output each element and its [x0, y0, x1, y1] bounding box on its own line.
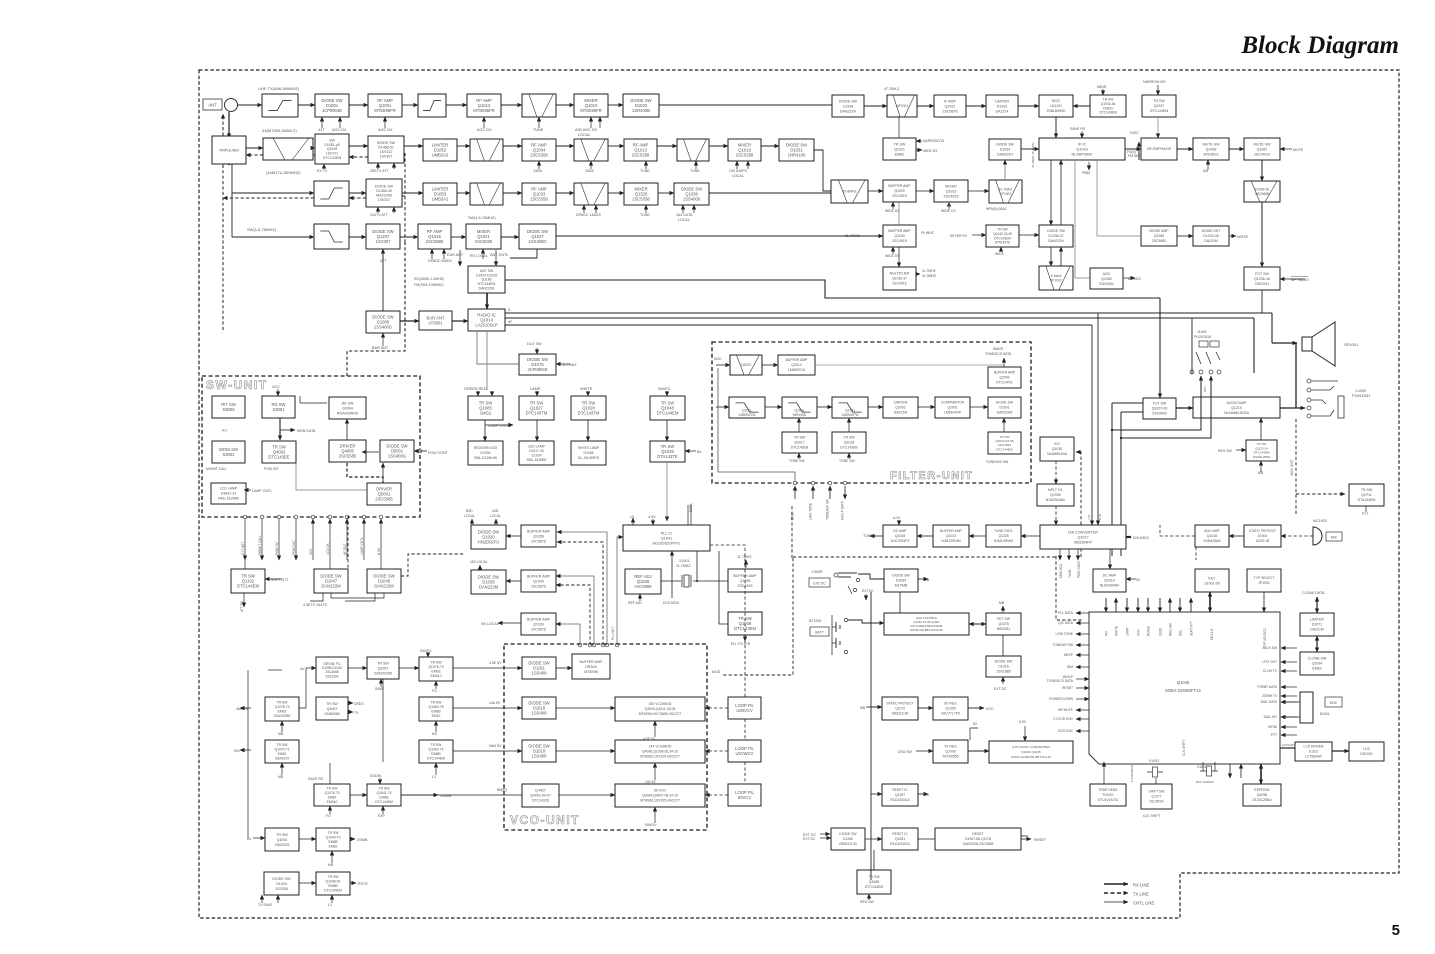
wire av to diplexer — [306, 667, 316, 669]
svg-text:LCD LAMP: LCD LAMP — [220, 487, 238, 491]
overline MP RADIO — [1291, 276, 1308, 278]
wire fo arrow b — [329, 806, 331, 814]
fet switch audio Q1007-09 — [1143, 398, 1176, 419]
svg-text:DOD3K: DOD3K — [370, 774, 382, 778]
svg-text:DTC144EM: DTC144EM — [996, 447, 1013, 451]
svg-text:1NR4100: 1NR4100 — [788, 153, 806, 158]
svg-text:MUTE SW: MUTE SW — [1203, 142, 1221, 146]
wire chain vertical left — [247, 670, 249, 838]
svg-text:153 LOCAL: 153 LOCAL — [470, 560, 488, 564]
rit switch S3005 — [212, 396, 245, 418]
svg-text:4.5E SV: 4.5E SV — [489, 661, 502, 665]
wire pwr branch reset — [871, 793, 882, 795]
rf amp Q1004 — [522, 139, 556, 161]
wire tx return row2 c — [349, 156, 368, 158]
svg-text:SC(A50K-1.2MHZ): SC(A50K-1.2MHZ) — [414, 277, 444, 281]
svg-text:DE-EMPHASIS: DE-EMPHASIS — [1147, 147, 1172, 151]
FILTER-UNIT dashed enclosure — [712, 342, 1031, 483]
svg-text:MT8S96,1SV325,HSC277: MT8S96,1SV325,HSC277 — [640, 755, 680, 759]
wire d1266 to reset — [865, 838, 882, 840]
svg-text:MP RADIO: MP RADIO — [1291, 278, 1309, 282]
svg-text:TR SW: TR SW — [430, 661, 442, 665]
IF IC Q1043 — [1039, 138, 1125, 160]
svg-text:Q2017: Q2017 — [794, 441, 804, 445]
svg-text:DA221M: DA221M — [1310, 628, 1324, 632]
svg-text:TEMP SENS: TEMP SENS — [1099, 788, 1119, 792]
diode switch D1458-45 — [366, 179, 402, 207]
svg-text:TUNE: TUNE — [690, 169, 700, 173]
svg-text:Q1062-74: Q1062-74 — [428, 748, 443, 752]
wire vco riser to buffer3 solid — [556, 624, 580, 645]
svg-text:VCC: VCC — [272, 385, 280, 389]
bandpass filter BPF4 — [574, 139, 608, 161]
audio amp Q1219 — [1193, 397, 1280, 418]
svg-text:KEY: KEY — [1208, 576, 1216, 580]
wire trunk c down dac — [1091, 325, 1093, 525]
tr switch Q1102 — [231, 569, 265, 593]
wire local arrow mixer1 — [590, 117, 592, 128]
svg-text:BUFFER AMP: BUFFER AMP — [888, 184, 911, 188]
svg-text:EXP: EXP — [378, 814, 386, 818]
svg-text:D2003: D2003 — [741, 363, 751, 367]
wire row1 long run to IF — [659, 104, 832, 106]
wire 65v arrow — [1024, 726, 1026, 741]
wire 5vreg out — [968, 707, 984, 709]
PLL IC Q1041 — [623, 525, 710, 551]
wire ific disc line — [1055, 117, 1057, 138]
svg-text:SW(1.6-76MHZ): SW(1.6-76MHZ) — [468, 216, 496, 220]
tr switch Q1076-73 — [314, 784, 350, 806]
wire fet to d1316 — [1002, 635, 1004, 656]
wire att arrow 1 — [321, 117, 323, 128]
svg-text:Q1094: Q1094 — [1312, 662, 1323, 666]
wire d1046 down — [345, 593, 375, 601]
svg-text:NLM2904AV: NLM2904AV — [1100, 584, 1120, 588]
svg-text:ANT: ANT — [208, 103, 217, 108]
svg-text:DCS MOD: DCS MOD — [663, 601, 680, 605]
wire dpagc arrow r4 — [431, 249, 433, 259]
svg-text:Q1029: Q1029 — [894, 189, 905, 193]
svg-text:2SC5650: 2SC5650 — [1152, 239, 1167, 243]
svg-text:(44M17U-300MHZ): (44M17U-300MHZ) — [266, 170, 301, 175]
wire loop fil chain a — [744, 719, 746, 740]
svg-text:1SV312: 1SV312 — [380, 150, 393, 154]
wire disc to ific — [1055, 117, 1057, 138]
svg-text:MB: MB — [278, 732, 284, 736]
svg-text:1SS400G: 1SS400G — [528, 239, 546, 244]
mixer Q1010 — [574, 94, 608, 117]
svg-text:2SC5005: 2SC5005 — [475, 239, 493, 244]
white lamp D1056 — [571, 441, 606, 465]
svg-text:TR SW: TR SW — [431, 743, 443, 747]
svg-text:AV: AV — [300, 667, 305, 671]
mute switch Q1968 — [1193, 138, 1229, 160]
svg-text:DTU1VVA75J: DTU1VVA75J — [1098, 798, 1119, 802]
svg-text:ATT: ATT — [380, 259, 387, 263]
svg-text:FM(76M-108MHZ): FM(76M-108MHZ) — [414, 283, 444, 287]
wire Q1033 to BPF7 — [556, 192, 574, 194]
wire reset to reset2 — [918, 838, 935, 840]
svg-text:2RU36VL: 2RU36VL — [1203, 152, 1219, 156]
svg-text:HVC89M: HVC89M — [635, 584, 652, 589]
wire ul arrow — [632, 518, 634, 525]
svg-text:1SSD: 1SSD — [1158, 627, 1162, 636]
wire filter to D1001 — [298, 104, 315, 106]
svg-text:2SC5658: 2SC5658 — [1255, 192, 1269, 196]
svg-text:EM62: EM62 — [329, 844, 338, 848]
wire d1034 to q1046 — [299, 882, 316, 884]
svg-text:PWR CONT: PWR CONT — [1077, 561, 1081, 578]
if filter 45-8MHZ — [831, 180, 868, 203]
junction circle POW on sw-unit border — [418, 449, 422, 453]
wire q1934 to disc — [1073, 105, 1090, 107]
svg-text:AGC DX: AGC DX — [332, 128, 347, 132]
wire qhdt to 50vco — [559, 794, 615, 796]
svg-text:DA2214: DA2214 — [996, 109, 1009, 113]
svg-text:EXT DC: EXT DC — [862, 589, 874, 593]
wire white arrow — [587, 391, 589, 396]
svg-text:CF1001: CF1001 — [1000, 192, 1012, 196]
svg-text:2SC5885: 2SC5885 — [426, 239, 444, 244]
buffer amp Q1056 — [521, 525, 556, 547]
svg-text:BUFFER AMP: BUFFER AMP — [580, 660, 604, 664]
wire dcs mod arrow — [671, 551, 673, 598]
tr switch Q1067 — [316, 697, 348, 720]
vco 144 — [615, 740, 705, 763]
wire audio feed a — [1112, 402, 1143, 404]
svg-text:NOISE: NOISE — [1146, 626, 1150, 636]
wire reg sw arrow audio — [1236, 449, 1246, 451]
tr switch Q1085 reg — [857, 870, 891, 894]
tr switch Q2017 — [782, 432, 817, 453]
svg-text:KEY1-8: KEY1-8 — [1210, 629, 1214, 640]
svg-text:JACK SW: JACK SW — [1262, 646, 1278, 650]
wire ext dc vco arrow — [820, 833, 830, 835]
svg-text:TR SW: TR SW — [868, 875, 880, 879]
svg-text:43(MT300-540M-Z): 43(MT300-540M-Z) — [262, 128, 297, 133]
svg-text:Q1091 Q1045: Q1091 Q1045 — [1021, 750, 1041, 754]
svg-text:Q1035: Q1035 — [1052, 447, 1063, 451]
svg-text:LM6902FW: LM6902FW — [841, 413, 859, 417]
wire driver up to resw — [346, 419, 348, 440]
tr switch Q1042-45 — [986, 225, 1019, 247]
svg-text:R3111N301A: R3111N301A — [890, 798, 911, 802]
svg-text:1SV307: 1SV307 — [376, 239, 392, 244]
wire trunk a down speaker — [1271, 313, 1273, 343]
svg-text:D1004: D1004 — [1258, 534, 1268, 538]
wire tone sw arrow b — [848, 453, 850, 459]
wire q1057 to q1075 — [399, 667, 419, 669]
svg-text:NJM2904AV: NJM2904AV — [1046, 498, 1066, 502]
svg-text:LPO OUT: LPO OUT — [1263, 660, 1277, 664]
wire save rs arrow — [1081, 131, 1083, 138]
svg-text:DTC143EE: DTC143EE — [268, 455, 289, 460]
svg-text:GREEN RED: GREEN RED — [464, 387, 487, 391]
svg-text:MDS551: MDS551 — [997, 627, 1011, 631]
SW-UNIT dashed enclosure — [202, 376, 420, 517]
svg-text:Bx: Bx — [697, 450, 701, 454]
svg-text:EM62: EM62 — [328, 795, 337, 799]
wire q1048 down — [666, 420, 668, 441]
filter FL3 highpass — [314, 181, 349, 206]
svg-text:D1024-D1028: D1024-D1028 — [476, 273, 497, 277]
svg-text:Q1036-37: Q1036-37 — [892, 277, 907, 281]
wire trunk d down dac — [1097, 313, 1099, 525]
wire BPF3 to Q1004 — [503, 145, 522, 147]
svg-text:D1017-20: D1017-20 — [529, 449, 544, 453]
wire crystal riser to pll — [696, 551, 698, 581]
svg-text:LAMP CNTL: LAMP CNTL — [252, 489, 272, 493]
wire q1028 down — [587, 420, 589, 441]
limiter D1052 — [423, 139, 457, 161]
svg-text:RX LINE: RX LINE — [1133, 883, 1149, 888]
tr switch Q1062-74 — [419, 740, 453, 763]
wire local arrow row3b — [693, 205, 695, 213]
diode switch D1458-51 — [368, 136, 404, 163]
svg-text:Q2018: Q2018 — [844, 441, 854, 445]
svg-text:BEEP: BEEP — [1064, 653, 1074, 657]
svg-text:DTA144EM: DTA144EM — [1358, 498, 1376, 502]
svg-text:D1102: D1102 — [1309, 750, 1319, 754]
svg-text:EX TX: EX TX — [317, 169, 328, 173]
wire vco riser to buffer2 solid — [556, 576, 594, 645]
wire noise arrow — [1229, 235, 1236, 237]
svg-text:Q1040-70: Q1040-70 — [325, 836, 340, 840]
svg-text:DPAGC 5WDX: DPAGC 5WDX — [428, 259, 452, 263]
wire dod3k arrow — [379, 778, 381, 784]
svg-text:R2L THSM07: R2L THSM07 — [1196, 780, 1214, 784]
svg-text:MONI: MONI — [1268, 725, 1277, 729]
wire Q1010 to D1032 — [608, 104, 623, 106]
svg-text:DIODE SW: DIODE SW — [995, 660, 1013, 664]
junction dot audio b — [1120, 437, 1122, 439]
svg-text:MT8S96FR: MT8S96FR — [580, 108, 601, 113]
svg-text:Q1070-71: Q1070-71 — [274, 748, 289, 752]
wire audio out to jack — [1280, 407, 1305, 409]
svg-text:IF IC: IF IC — [1078, 142, 1086, 146]
wire att arrow row4 — [382, 249, 384, 259]
crystal X1002 — [1196, 765, 1218, 784]
svg-text:MC1903: MC1903 — [1313, 519, 1327, 523]
wire jack unit dashed — [1296, 419, 1345, 514]
noise amp Q1065 — [1141, 226, 1177, 246]
svg-text:5V: 5V — [973, 722, 978, 726]
svg-text:2DRW TX: 2DRW TX — [1262, 694, 1278, 698]
tr switch Q1046-91 — [316, 872, 350, 895]
svg-text:AGC: AGC — [1103, 272, 1111, 276]
svg-text:SN LOCAL: SN LOCAL — [481, 622, 499, 626]
svg-text:2SK2941: 2SK2941 — [1255, 282, 1270, 286]
svg-text:Q1092: Q1092 — [277, 838, 288, 842]
battery BT1001 label box — [810, 627, 829, 636]
svg-text:WFM(S) 50&4: WFM(S) 50&4 — [986, 207, 1006, 211]
svg-text:MB: MB — [328, 863, 334, 867]
svg-text:ANT CNTL: ANT CNTL — [490, 253, 509, 257]
buffer amp Q1029 — [883, 180, 916, 202]
charge control Q1040-98 — [884, 613, 969, 635]
svg-text:REG SW: REG SW — [1218, 449, 1233, 453]
wire d5001 to driver — [362, 451, 379, 453]
wire tune arrow row2a — [645, 161, 647, 169]
svg-text:EAR ANT: EAR ANT — [447, 253, 464, 257]
svg-text:NOISE AMP: NOISE AMP — [1149, 229, 1169, 233]
svg-text:UD2S.1B: UD2S.1B — [1256, 539, 1269, 543]
svg-text:1SV271: 1SV271 — [326, 152, 339, 156]
svg-text:TR SW: TR SW — [1153, 99, 1165, 103]
wire tone sw arrow a — [798, 453, 800, 459]
wire dac down to dcamp — [1109, 549, 1111, 569]
svg-text:RML-512WM: RML-512WM — [218, 497, 239, 501]
fet switch Q1036-16 — [1244, 267, 1280, 290]
wire vcc arrow swunit — [277, 389, 279, 396]
svg-text:MOD ADJ: MOD ADJ — [1059, 563, 1063, 578]
svg-text:PLL FILTER: PLL FILTER — [731, 642, 751, 646]
svg-text:S3005: S3005 — [222, 407, 235, 412]
wire mb arrow a — [281, 721, 283, 732]
da converter Q1017 — [1040, 525, 1126, 549]
wire limiter to BPF3 — [457, 145, 470, 147]
wire filter bus horizontal — [793, 556, 1056, 558]
wire tune arrow row3 — [645, 205, 647, 213]
agc amp Q1016 — [1195, 525, 1229, 547]
svg-text:TYP SELECD: TYP SELECD — [1263, 628, 1267, 648]
wire 153 arrow — [479, 565, 481, 570]
wire q1034 down to mult — [898, 247, 900, 267]
svg-text:LOW TONE: LOW TONE — [1056, 632, 1074, 636]
wire save3 arrow a — [666, 391, 668, 396]
lcd panel D91001 — [1349, 742, 1384, 761]
wire Q1013 to BPF5 — [657, 145, 677, 147]
wire dac to tunecntl — [1021, 535, 1040, 537]
svg-text:DTC143EB: DTC143EB — [791, 446, 809, 450]
svg-text:Q1060-78: Q1060-78 — [428, 705, 443, 709]
mixer Q1021 — [466, 224, 501, 249]
labels dac below rotated — [1059, 561, 1081, 578]
wire d1031 to if trap — [814, 150, 831, 191]
svg-text:Q1017: Q1017 — [1077, 535, 1088, 539]
svg-text:MGN DATA: MGN DATA — [297, 429, 316, 433]
wire typselect to cpu — [1263, 592, 1265, 612]
svg-text:TONE/WX SW: TONE/WX SW — [986, 460, 1009, 464]
svg-text:SGM4L35PE: SGM4L35PE — [1253, 455, 1271, 459]
wire x1001 to buffer — [700, 580, 728, 582]
bandpass filter BPF1 — [522, 94, 556, 117]
svg-text:Q2006: Q2006 — [1000, 376, 1010, 380]
svg-text:TR SW: TR SW — [794, 436, 806, 440]
svg-text:AGC DX: AGC DX — [378, 128, 393, 132]
svg-text:D1458-51: D1458-51 — [378, 146, 394, 150]
svg-text:WHITE: WHITE — [1114, 626, 1118, 636]
buffer amp Q1030 — [521, 613, 556, 635]
svg-text:Q2002: Q2002 — [895, 406, 906, 410]
svg-text:TUNE: TUNE — [640, 169, 650, 173]
wire l3 arrow a — [435, 763, 437, 775]
wire b3d arrow — [471, 519, 473, 526]
svg-text:SHIFT SW: SHIFT SW — [1149, 790, 1166, 794]
antenna node circle — [225, 99, 238, 112]
svg-text:D1071: D1071 — [1312, 623, 1322, 627]
svg-text:LIMITER: LIMITER — [995, 99, 1010, 103]
diode switch D1316 — [986, 656, 1021, 677]
wire swunit dashed inner — [347, 463, 383, 483]
wire q1049 up to pll — [719, 551, 728, 624]
svg-text:POW INT: POW INT — [264, 467, 279, 471]
wire d1010 to 144vco — [556, 750, 615, 752]
svg-text:BUFFER AMP: BUFFER AMP — [786, 358, 808, 362]
svg-text:LAMP: LAMP — [530, 387, 541, 391]
svg-text:11.7MHZ: 11.7MHZ — [922, 269, 936, 273]
svg-text:Q1049: Q1049 — [327, 147, 338, 151]
dc amp Q1010 — [1093, 569, 1126, 592]
fet switch Q1078 pwr — [986, 613, 1021, 635]
svg-text:Q1073: Q1073 — [895, 707, 905, 711]
wire dlx arrow — [536, 348, 538, 354]
svg-text:ENC: ENC — [1330, 701, 1338, 705]
svg-text:BM(R): BM(R) — [497, 788, 507, 792]
svg-text:UL: UL — [630, 515, 635, 519]
svg-text:2SBLB490K: 2SBLB490K — [1046, 109, 1066, 113]
wire FL3 to D1458-45 — [349, 192, 366, 194]
svg-text:L IN: L IN — [1087, 515, 1091, 520]
wire cpu bottom arrow down — [1229, 764, 1231, 778]
wire sw unit dashed right — [347, 516, 349, 569]
svg-text:RXTX: RXTX — [358, 882, 368, 886]
svg-text:MONI/T CALL: MONI/T CALL — [206, 467, 227, 471]
mute switch Q1062 — [1244, 138, 1280, 160]
svg-text:1SS1390: 1SS1390 — [325, 674, 338, 678]
svg-text:Q4919,Q4011-03-05: Q4919,Q4011-03-05 — [645, 707, 676, 711]
triplexer — [212, 136, 246, 164]
svg-text:2SC5876: 2SC5876 — [531, 539, 546, 543]
wire mb arrow audio — [1260, 461, 1262, 472]
svg-text:POWR DATA: POWR DATA — [1258, 685, 1278, 689]
svg-text:EXT DC: EXT DC — [813, 582, 826, 586]
svg-text:WIDE DS: WIDE DS — [885, 209, 900, 213]
wire 13d6 arrow — [538, 161, 540, 169]
antenna switch D1024-D1028 — [468, 266, 505, 293]
ext dc connector label — [809, 578, 830, 587]
svg-text:LCD DATA: LCD DATA — [1282, 743, 1296, 747]
svg-text:Q1085: Q1085 — [869, 880, 880, 884]
wire enc to cpu a — [1281, 701, 1300, 703]
svg-text:Q1030: Q1030 — [533, 622, 544, 626]
svg-text:TONE/DCS DATA: TONE/DCS DATA — [985, 352, 1012, 356]
svg-text:1SS400G: 1SS400G — [374, 325, 392, 330]
svg-text:KEYER RX: KEYER RX — [950, 234, 968, 238]
wire cpu bottom arrow up — [1240, 764, 1242, 778]
tr switch Q2018 — [832, 432, 866, 453]
wire c1938 to mf1001 — [864, 105, 887, 107]
svg-text:M3: M3 — [432, 732, 437, 736]
wire dpagc arrow r3b — [595, 205, 597, 213]
wire keyer arrow — [972, 234, 986, 236]
wire driver q5001 left — [296, 463, 367, 490]
ref adjust Q1035 — [625, 569, 661, 594]
wire data lines pll b — [690, 505, 692, 525]
cpu top pin labels rotated inside — [1104, 621, 1267, 756]
wire q1056 to d1030 — [506, 535, 521, 537]
wire d1069 down to chg — [899, 592, 901, 613]
svg-text:TR SW: TR SW — [277, 701, 289, 705]
svg-text:FCT SW: FCT SW — [1255, 272, 1269, 276]
svg-text:WIDE: WIDE — [995, 252, 1005, 256]
wire Q1001 to FL2 — [402, 104, 418, 106]
wire mb to static — [866, 706, 882, 708]
wire static to 5vreg — [918, 707, 933, 709]
svg-text:PB82: PB82 — [1082, 171, 1090, 175]
svg-text:Q1096: Q1096 — [1257, 793, 1268, 797]
wire ioc input dashed riser — [1076, 452, 1081, 557]
